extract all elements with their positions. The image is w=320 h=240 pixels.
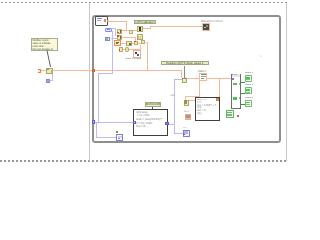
boolean indicator 3: [245, 100, 253, 107]
button 2 label: [245, 84, 258, 87]
blue rounded icon 1: [105, 28, 112, 33]
chart 3 label: [184, 111, 194, 114]
while loop border: [92, 15, 281, 143]
wire orange junction to scaling node: [185, 96, 200, 97]
wire green tall node to button2: [241, 93, 245, 94]
wire orange node B row: [121, 37, 136, 38]
iteration increment icon: [183, 130, 190, 137]
tall node green glyph 2: [233, 97, 237, 100]
waveform chart terminal: [202, 23, 210, 31]
wire blue formula1 output: [168, 124, 175, 125]
selected build icon G: [133, 50, 141, 58]
tiny annotation mark: [260, 56, 263, 59]
wire blue tunnel to formula node 1: [95, 122, 133, 123]
breakpoint red dot: [237, 115, 239, 117]
formula node 1 output terminal: [165, 122, 168, 126]
numeric constant orange left: [38, 69, 42, 73]
comparison node I: [141, 40, 145, 44]
scaling node yellow 2: [184, 100, 189, 107]
blue tunnel on loop left border: [92, 120, 96, 124]
formula node 1 text: [136, 111, 167, 134]
conversion icon F1: [137, 26, 143, 32]
blue icon 2: [105, 37, 111, 42]
wire orange lower cluster row: [123, 49, 141, 50]
function node A: [117, 29, 122, 34]
page boundary dotted line bottom: [0, 160, 287, 162]
wire orange node A to multiply: [121, 30, 129, 31]
orange tunnel on loop left border: [92, 69, 95, 73]
wire orange chart2 down to formula node 2: [199, 81, 200, 97]
label connector line strip2: [183, 66, 186, 78]
boolean indicator 1: [245, 75, 253, 83]
chart 2 label: [198, 70, 210, 73]
function node B: [117, 35, 122, 40]
wire orange scaling node to formula node 2: [188, 100, 195, 101]
label under icon G: [125, 58, 145, 61]
wire blue icon2 to node B: [111, 38, 117, 39]
comment tooltip box: [31, 38, 58, 51]
waveform chart label: [201, 20, 225, 23]
formula node 2 output terminal: [216, 98, 220, 101]
chart 2 terminal: [199, 73, 207, 82]
in-range icon G2: [126, 41, 132, 47]
button 1 label: [245, 72, 258, 75]
tooltip pointer line: [0, 0, 307, 164]
chart 3 terminal selected: [185, 114, 192, 120]
left small function node: [46, 68, 53, 74]
free label strip 2: [161, 61, 209, 66]
label above increment icon: [183, 127, 191, 129]
page boundary vertical line right: [286, 3, 287, 161]
wire blue icon1 to node B: [112, 28, 116, 29]
tall node header: [232, 74, 240, 76]
wire orange express vi output: [109, 21, 127, 22]
wire orange to waveform chart: [150, 26, 202, 27]
tall unbundle node: [231, 74, 241, 110]
stop logic green icon: [226, 110, 234, 118]
tiny marker above wait timer: [116, 131, 118, 133]
formula node 1 input terminal: [133, 121, 136, 125]
left small blue indicator icon: [46, 79, 51, 83]
conversion icon F2: [137, 34, 143, 40]
tall node right edge marks: [239, 83, 241, 85]
wire orange multiply to F1: [132, 30, 137, 31]
wire blue long loop-down: [112, 31, 113, 73]
multiply node: [129, 30, 133, 34]
wire orange mid cluster row: [121, 43, 142, 44]
free label strip 1: [134, 20, 156, 25]
triangle node D: [119, 47, 124, 52]
wire orange cluster drop join: [146, 42, 148, 43]
wire orange main horizontal: [41, 70, 181, 71]
button 3 label: [245, 97, 258, 100]
merge node yellow: [182, 78, 188, 84]
formula node 1 label: [145, 102, 161, 107]
express VI icon top-left: [95, 16, 108, 26]
formula node 2 text: [197, 99, 218, 119]
tall node blue pip: [232, 78, 234, 80]
wire orange formula2 output up: [219, 78, 220, 98]
wait timer icon: [116, 134, 123, 141]
wire orange F1 to chart riser: [143, 28, 151, 29]
page boundary dotted line top: [1, 2, 287, 4]
comparison node H: [134, 41, 138, 45]
wire green tall node to button1: [241, 82, 245, 83]
wire orange merge node to tall node: [187, 78, 232, 79]
property node icon C: [114, 40, 121, 46]
wire blue left small node to indicator: [52, 74, 53, 81]
formula node 1: [133, 109, 168, 136]
wire orange branch to merge node: [181, 70, 182, 78]
formula node 2: [195, 97, 220, 121]
tall node green glyph 1: [233, 83, 237, 86]
wire label disp: [171, 94, 179, 97]
round node E: [125, 47, 130, 52]
boolean indicator 2: [245, 87, 253, 95]
page boundary vertical line left: [89, 3, 90, 161]
wire green tall node to button3: [241, 104, 245, 105]
